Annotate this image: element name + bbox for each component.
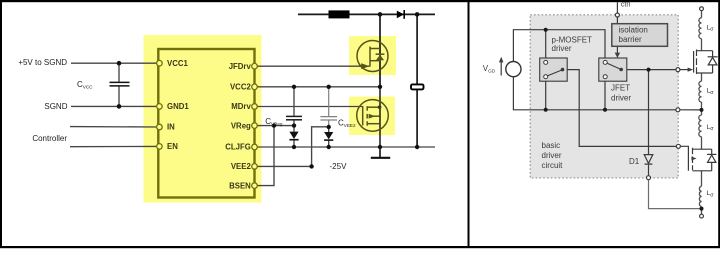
svg-text:ctrl: ctrl [621, 1, 631, 8]
svg-text:circuit: circuit [542, 161, 564, 170]
svg-text:driver: driver [542, 151, 562, 160]
svg-text:+5V to SGND: +5V to SGND [18, 58, 67, 67]
svg-text:p-MOSFET: p-MOSFET [552, 35, 593, 44]
svg-text:JFET: JFET [611, 84, 630, 93]
svg-text:VCC1: VCC1 [167, 59, 188, 68]
svg-text:VReg: VReg [231, 121, 251, 130]
svg-text:Lσ: Lσ [707, 190, 715, 198]
svg-text:Lσ: Lσ [707, 24, 715, 32]
svg-text:isolation: isolation [619, 26, 648, 35]
svg-text:CLJFG: CLJFG [225, 143, 251, 152]
svg-text:VEE2: VEE2 [231, 162, 252, 171]
svg-text:basic: basic [542, 141, 561, 150]
svg-text:Lσ: Lσ [707, 88, 715, 96]
svg-text:GND1: GND1 [167, 102, 189, 111]
svg-text:Controller: Controller [32, 134, 67, 143]
svg-text:driver: driver [611, 93, 631, 102]
svg-text:IN: IN [167, 123, 175, 132]
svg-text:Lσ: Lσ [707, 124, 715, 132]
svg-text:MDrv: MDrv [231, 102, 251, 111]
svg-text:D1: D1 [629, 157, 640, 166]
svg-text:SGND: SGND [44, 102, 67, 111]
svg-text:EN: EN [167, 142, 178, 151]
svg-text:driver: driver [552, 44, 572, 53]
svg-text:BSEN: BSEN [229, 181, 251, 190]
svg-text:-25V: -25V [330, 162, 348, 171]
svg-text:barrier: barrier [619, 35, 642, 44]
svg-text:JFDrv: JFDrv [229, 62, 252, 71]
svg-text:VCC2: VCC2 [230, 83, 251, 92]
